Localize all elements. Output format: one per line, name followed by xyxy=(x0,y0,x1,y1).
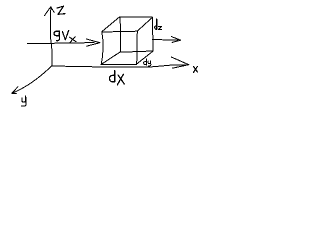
label rho xyxy=(54,31,60,40)
cube top-left diagonal xyxy=(102,17,120,32)
y-axis xyxy=(12,66,52,93)
x-axis xyxy=(52,65,189,67)
label dy d stem xyxy=(145,59,147,65)
label x xyxy=(194,66,198,72)
z-axis arrowhead xyxy=(45,7,55,16)
label dy d loop xyxy=(144,62,147,65)
rho-vx arrowhead xyxy=(86,39,99,46)
right outflow arrow shaft xyxy=(153,39,178,41)
cube bottom-right diagonal xyxy=(137,51,153,64)
cube back top edge xyxy=(120,16,153,18)
cube back bottom edge xyxy=(120,51,152,52)
cube front right edge xyxy=(136,31,139,64)
cube front left edge xyxy=(101,32,103,65)
cube back right edge xyxy=(152,17,154,51)
label Z xyxy=(57,6,65,14)
label dx d loop xyxy=(109,75,114,81)
label V xyxy=(62,30,68,39)
label dy y xyxy=(148,61,151,66)
cube bottom-left diagonal xyxy=(101,52,120,64)
label x subscript xyxy=(70,37,76,43)
x-axis arrowhead xyxy=(172,57,189,68)
right outflow arrowhead xyxy=(172,37,181,43)
cube back left edge xyxy=(119,17,121,52)
label y xyxy=(22,96,27,106)
label dz z xyxy=(159,27,162,30)
y-axis arrowhead xyxy=(12,87,18,94)
label dz stem xyxy=(156,19,158,29)
label dx d stem xyxy=(114,70,116,82)
label dx x xyxy=(117,74,124,84)
cube top-right diagonal xyxy=(137,17,152,31)
cube front bottom edge xyxy=(101,63,137,65)
z-axis xyxy=(50,7,52,66)
rho-vx arrow shaft xyxy=(27,43,94,44)
label dz loop xyxy=(155,26,157,29)
cube front top edge xyxy=(102,30,137,33)
